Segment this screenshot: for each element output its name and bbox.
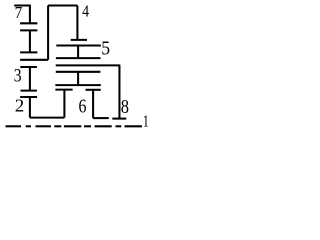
ring gear top bar long [56,64,121,66]
gear 5 long bar upper [56,44,101,46]
right leg horizontal [93,117,109,119]
svg-text:5: 5 [101,38,110,60]
centerline axis dot 2 [54,125,61,127]
gear bar 2 [20,29,37,31]
gear bar 4 to bracket leg [20,59,48,61]
gear bar 3 [20,51,37,53]
shaft 8 right vertical [118,65,120,118]
gear T-foot bar on shaft 4 [71,39,87,41]
svg-text:6: 6 [79,95,87,117]
shaft 2 bottom horizontal [30,117,65,119]
bracket 4 left leg vertical [47,6,49,60]
gear 3 body vertical [29,67,31,91]
shaft 7 roof horizontal [14,4,31,6]
centerline axis dash 1 [6,125,22,127]
svg-text:4: 4 [82,2,89,21]
gear long bar second [56,57,101,59]
gear 3 top cap bar [20,66,37,68]
centerline axis dash 5 [125,125,142,127]
gear 2 bar [20,96,37,98]
svg-text:7: 7 [15,4,23,22]
centerline axis dot 4 [116,125,122,127]
centerline axis dash 2 [36,125,52,127]
svg-text:1: 1 [143,113,149,131]
bracket 4 right leg vertical [76,6,78,40]
mid shaft stub b [77,72,79,85]
gear 3 bottom cap bar [21,90,37,92]
gear long bar inner [56,71,101,73]
left shaft lower segment [29,97,31,118]
centerline axis dot 3 [84,125,91,127]
mid shaft stub a [77,46,79,59]
svg-text:2: 2 [15,96,25,115]
left carrier leg vertical [63,90,65,118]
gear 6 long bar [55,84,100,86]
svg-text:3: 3 [14,65,22,86]
shaft 8 T-foot bar [112,118,126,120]
centerline axis dot 1 [26,125,31,127]
lower bar left segment [55,89,72,91]
centerline axis dash 3 [64,125,81,127]
shaft 7 vertical upper [29,6,31,24]
lower bar right segment [86,89,101,91]
svg-text:8: 8 [121,96,129,118]
gear bar 1 [20,22,37,24]
left shaft mid segment [29,30,31,52]
centerline axis dash 4 [95,125,112,127]
bracket 4 top horizontal [48,4,77,6]
right leg vertical [92,90,94,118]
